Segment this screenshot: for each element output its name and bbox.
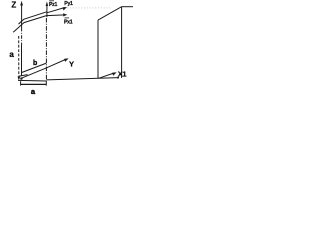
svg-text:X1: X1 [118,70,127,79]
dimension line a [21,83,47,85]
svg-text:Y: Y [69,59,74,68]
chip lower line [13,16,47,33]
faint reference line [67,7,112,9]
force Py1 arrow [47,8,65,13]
svg-text:Pz1: Pz1 [49,2,57,8]
force Px1 overbar [65,17,70,19]
workpiece box top edge [122,6,133,8]
workpiece edge line [21,45,23,76]
tool axis dash-dot line [45,18,47,80]
force Px1 arrow [47,14,65,17]
leader down arrowhead [18,77,21,81]
baseline left segment [18,79,46,82]
shear upper line [21,63,46,73]
baseline right segment [46,78,118,80]
leader dashed line [18,36,20,77]
baseline end dot [117,77,119,79]
svg-text:Z: Z [11,0,16,9]
workpiece box top-left edge [98,7,122,20]
force Pz1 overbar [49,0,54,2]
svg-text:a: a [9,50,14,59]
svg-text:Py1: Py1 [64,1,73,7]
axis Z dash-dot segment [21,28,23,45]
axis Y arrow [21,59,66,78]
svg-text:Px1: Px1 [64,19,73,25]
axis Z arrow [21,5,23,28]
junction blob [20,77,22,79]
svg-text:b: b [33,60,37,67]
surface stub [19,75,28,77]
workpiece box right edge [121,7,123,78]
axis X1 arrow [99,73,115,78]
force Pz1 arrow [46,5,48,17]
workpiece box left edge [97,20,99,78]
chip upper line [19,12,47,24]
